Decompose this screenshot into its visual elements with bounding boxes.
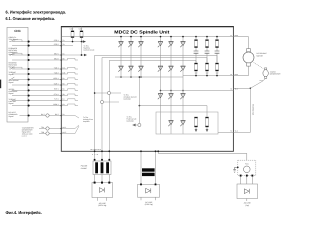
varistor arrow R201	[195, 127, 197, 132]
motor return wire	[233, 66, 248, 76]
power choke label	[81, 165, 88, 170]
capacitor C301	[194, 51, 199, 53]
thyristor D5	[168, 42, 173, 48]
AC LINE label 1	[98, 202, 106, 207]
thyristor D7	[118, 66, 123, 72]
field column wire 3	[182, 91, 184, 134]
CT connector node 1	[94, 91, 121, 94]
svg-text:TWISTED PAIR: TWISTED PAIR	[251, 104, 254, 116]
tacho label	[270, 70, 281, 75]
thyristor D9	[138, 66, 143, 72]
thyristor D4	[158, 42, 163, 48]
svg-text:Amplifier: Amplifier	[83, 120, 90, 123]
negative gather bus	[115, 76, 183, 78]
tacho loop wires	[233, 88, 250, 132]
bridge column wire 1	[120, 36, 122, 78]
svg-text:Controller: Controller	[124, 97, 132, 100]
inside stub of row 10	[61, 94, 78, 96]
AC LINE label 2	[145, 201, 153, 206]
bus loop inner (phase T)	[109, 60, 196, 151]
svg-text:MDC2 DC Spindle Unit: MDC2 DC Spindle Unit	[114, 29, 170, 34]
wire to sequence circuit with arrow	[61, 40, 86, 43]
thyristor D3	[138, 42, 143, 48]
CNC signal label block 8	[9, 111, 19, 118]
svg-text:(200V 3φ): (200V 3φ)	[98, 204, 106, 207]
transformer T1 core bars	[142, 168, 155, 176]
field wire to resistors	[139, 105, 207, 117]
svg-text:U V W: U V W	[92, 153, 99, 156]
fan transformer feed wire	[140, 150, 156, 184]
DC spindle motor M1	[243, 49, 254, 67]
wire row 9 (SDT.1) with junction dots and labels	[12, 88, 65, 92]
svg-text:CTH.1: CTH.1	[54, 93, 59, 96]
svg-text:SFR.2: SFR.2	[54, 43, 59, 46]
enclosure top edge emphasis	[61, 26, 234, 28]
svg-text:T3: T3	[230, 88, 232, 91]
AC line stubs 2	[141, 197, 156, 200]
svg-text:10R: 10R	[206, 72, 210, 75]
thyristor D14	[168, 94, 173, 100]
svg-text:T1: T1	[230, 34, 232, 37]
thyristor D17	[180, 121, 185, 127]
svg-text:Signal: Signal	[9, 81, 14, 84]
AC line stub 3	[246, 199, 248, 202]
note: to machine control circuit	[84, 44, 95, 51]
snubber column 1 lower stub	[195, 71, 197, 76]
thyristor D6	[180, 42, 185, 48]
armature feed wire exiting box (MA.6)	[230, 34, 248, 49]
resistor R202	[206, 117, 209, 127]
power choke L1	[93, 159, 111, 175]
bridge column wire 4	[160, 36, 162, 91]
svg-text:TG.1: TG.1	[260, 79, 263, 82]
svg-text:10R: 10R	[195, 72, 199, 75]
thyristor D16	[168, 121, 173, 127]
svg-text:SAR.1: SAR.1	[54, 82, 59, 85]
svg-text:T4: T4	[230, 130, 232, 133]
thyristor D11	[168, 66, 173, 72]
svg-text:Control Circuit: Control Circuit	[84, 48, 95, 51]
wire row 5 (TLM.1) with junction dots and labels	[12, 66, 66, 70]
svg-text:Signal: Signal	[9, 92, 14, 95]
svg-text:MA.6: MA.6	[235, 34, 239, 37]
field column wire 2	[170, 91, 172, 134]
fan to rectifier wires	[241, 177, 253, 185]
bridge column wire 6	[182, 36, 184, 91]
svg-text:Signal: Signal	[9, 73, 14, 76]
resistor R201	[195, 117, 198, 127]
svg-text:6.1. Описание интерфейса.: 6.1. Описание интерфейса.	[6, 16, 56, 21]
thyristor D15	[180, 94, 185, 100]
choke to rectifier wires	[95, 175, 110, 183]
bus loop outer (phase R)	[95, 55, 217, 151]
field column wire 1	[160, 91, 162, 134]
svg-text:Signal: Signal	[9, 102, 14, 105]
wire row 10 (CTH.1) with junction dots and labels	[12, 93, 65, 97]
wire row 6 (TLM.2) with junction dots and labels	[12, 71, 66, 75]
pull-up resistor R102 (+24V)	[78, 27, 83, 41]
CNC signal label block 6	[9, 88, 19, 95]
thyristor D1	[118, 42, 123, 48]
wire row 1 (SFR.1) with junction dots and labels	[12, 39, 65, 43]
page-edge scan artifact mark	[0, 80, 1, 89]
svg-text:(100V 1φ): (100V 1φ)	[145, 203, 153, 206]
CNC box	[7, 27, 28, 122]
inside stub of row 7	[61, 78, 78, 80]
thyristor D10	[158, 66, 163, 72]
svg-text:Фиг.4. Интерфейс.: Фиг.4. Интерфейс.	[6, 210, 43, 215]
CNC signal label block 4	[9, 71, 17, 76]
CT connector node 2	[100, 100, 119, 103]
note text: to the velocity error amplifier	[83, 116, 93, 123]
note: to the armature current controller	[124, 93, 138, 100]
switch contact 2 (CNC)	[9, 53, 14, 55]
rectifier unit 3 (fan supply)	[237, 184, 258, 199]
svg-text:DA.2: DA.2	[41, 113, 45, 116]
resistor R312	[206, 63, 209, 71]
MDC2 DC Spindle Unit enclosure box	[61, 27, 233, 152]
svg-text:TLH.1: TLH.1	[54, 98, 59, 101]
inside stub of row 9	[61, 89, 78, 91]
capacitor C303	[215, 51, 220, 53]
svg-text:(1φ): (1φ)	[246, 204, 250, 207]
field controller drop wire	[133, 76, 141, 126]
CNC signal label block 5	[9, 79, 20, 84]
inside stub of row 6	[61, 72, 78, 74]
wire row 7 (ORC.1) with junction dots and labels	[12, 77, 65, 81]
resistor R302	[206, 40, 209, 48]
svg-text:MOTOR: MOTOR	[257, 54, 264, 57]
rectifier unit 2 (single phase)	[138, 184, 160, 198]
wire row 11 (TLH.1) with junction dots and labels	[12, 98, 65, 102]
snubber column 1 stub	[195, 36, 197, 63]
svg-text:SRV.1: SRV.1	[54, 52, 59, 55]
svg-text:+24V: +24V	[78, 28, 83, 31]
snubber column 3 lower stub	[216, 71, 218, 76]
CNC signal label block 7	[9, 98, 17, 105]
wire row 8 (SAR.1) with junction dots and labels	[12, 82, 65, 86]
inside stub of row 2	[61, 45, 73, 47]
svg-text:+24V: +24V	[69, 28, 74, 31]
inside stub of row 11	[61, 99, 78, 101]
svg-text:SRV.2: SRV.2	[54, 57, 59, 60]
rectifier unit 1 (3-phase)	[92, 182, 113, 198]
switch contact 3 (CNC)	[9, 67, 14, 69]
svg-text:Controller: Controller	[127, 119, 135, 122]
thyristor D12	[180, 66, 185, 72]
switch contact 4 (CNC)	[9, 77, 14, 79]
shaft coupling (dashed)	[254, 63, 264, 69]
tacho lead	[250, 78, 266, 89]
svg-text:COM.1: COM.1	[53, 103, 58, 106]
armature return wire (MA)	[183, 73, 238, 76]
protective earth	[233, 167, 238, 173]
pull-up resistor R101 (+24V)	[69, 27, 74, 41]
inside stub of row 12	[61, 104, 78, 106]
snubber column 3 stub	[216, 36, 218, 63]
bridge column wire 5	[170, 36, 172, 91]
fan unit box (dashed)	[238, 160, 256, 175]
bridge column wire 2	[130, 36, 132, 78]
bus loop middle (phase S)	[102, 58, 207, 152]
inside stub of row 5	[61, 67, 78, 69]
svg-text:6. Интерфейс электропривода.: 6. Интерфейс электропривода.	[6, 9, 67, 14]
svg-text:CHOKE: CHOKE	[81, 167, 88, 170]
tacho return wire (TA.2)	[218, 130, 238, 133]
bridge column wire 3	[140, 36, 142, 78]
motor label	[257, 52, 268, 57]
thyristor D13	[158, 94, 163, 100]
positive bus rail under title	[61, 36, 233, 38]
svg-text:GENERATOR: GENERATOR	[270, 73, 281, 76]
svg-text:DA.2: DA.2	[55, 113, 59, 116]
resistor R311	[195, 63, 198, 71]
switch contact 1 (CNC)	[9, 39, 14, 41]
AC LINE label 3	[244, 202, 252, 207]
choke feed wires PA.1 PA.2 PA.3	[91, 148, 111, 161]
inside stub of row 3	[61, 42, 87, 57]
svg-text:r.p.m.): r.p.m.)	[22, 135, 27, 138]
snubber column 2 stub	[206, 36, 208, 63]
svg-text:TION Signal: TION Signal	[9, 38, 19, 41]
inside stub of row 8	[61, 83, 78, 85]
fan terminals	[240, 175, 254, 177]
svg-text:Signal: Signal	[9, 66, 14, 69]
thyristor D8	[128, 66, 133, 72]
svg-text:PA.1 PA.2 PA.3: PA.1 PA.2 PA.3	[91, 148, 101, 151]
tacho wire 2 with shield connector	[39, 131, 66, 135]
inside stub of row 4	[61, 58, 78, 60]
varistor arrow R202	[206, 127, 208, 132]
svg-text:T2: T2	[230, 73, 232, 76]
thyristor D2	[128, 42, 133, 48]
capacitor C302	[205, 51, 210, 53]
svg-text:10R: 10R	[216, 72, 220, 75]
CNC signal label block 3	[9, 62, 18, 69]
wire row 2 (SFR.2) with junction dots and labels	[12, 43, 65, 47]
svg-text:SFR.1: SFR.1	[54, 39, 59, 42]
CNC signal label block 2	[9, 47, 19, 56]
svg-text:ORC.1: ORC.1	[53, 77, 58, 80]
note: to the field current controller	[127, 115, 137, 122]
svg-text:TLM.1: TLM.1	[54, 66, 59, 69]
note: to velocity error amplifier (arrows)	[61, 116, 79, 134]
CNC signal label block 1	[9, 36, 19, 41]
tacho wire 1 with shield connector	[39, 126, 66, 130]
svg-text:Signal: Signal	[9, 115, 14, 118]
wire row 4 (SRV.2) with junction dots and labels	[12, 57, 65, 61]
tacho generator G1	[263, 68, 268, 79]
AC line stubs 1	[98, 198, 107, 201]
inner sub-box (field rectifier module)	[156, 112, 218, 134]
resistor R301	[195, 40, 198, 48]
tachometer generator note text	[22, 127, 34, 138]
wire row 13 (DA.2) with junction dots and labels	[20, 113, 66, 117]
snubber column 2 lower stub	[206, 71, 208, 76]
svg-text:SDT.1: SDT.1	[54, 88, 59, 91]
field bus wire (TA)	[161, 88, 238, 91]
fan circuit wire to fan unit	[157, 150, 247, 160]
wire row 3 (SRV.1) with junction dots and labels	[12, 52, 65, 56]
resistor R313	[216, 63, 219, 71]
resistor R303	[216, 40, 219, 48]
wire row 12 (COM.1) with junction dots and labels	[12, 103, 65, 107]
svg-text:TLM.2: TLM.2	[54, 71, 59, 74]
svg-text:CNC: CNC	[14, 29, 21, 33]
